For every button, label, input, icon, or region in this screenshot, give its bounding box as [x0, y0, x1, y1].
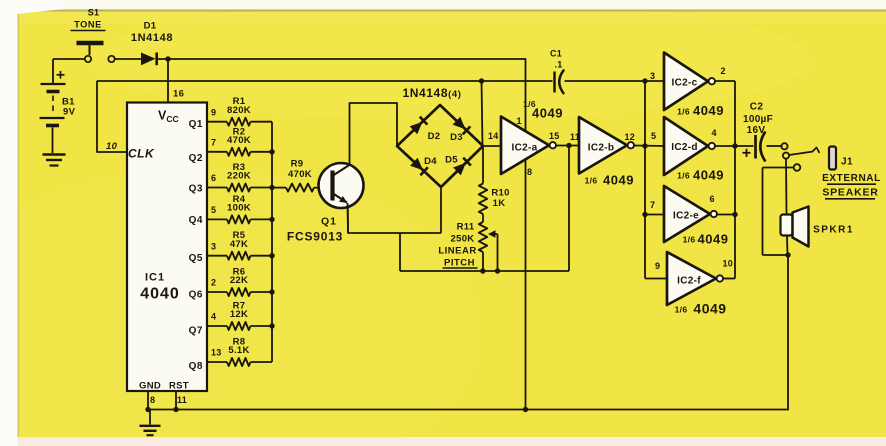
svg-text:Q1: Q1 — [321, 216, 337, 228]
svg-text:IC2-a: IC2-a — [512, 143, 538, 154]
svg-text:Q4: Q4 — [189, 215, 203, 226]
svg-text:10: 10 — [106, 141, 118, 152]
svg-text:4049: 4049 — [603, 173, 634, 188]
svg-text:4: 4 — [211, 312, 216, 322]
svg-text:22K: 22K — [230, 275, 248, 286]
svg-text:1/6: 1/6 — [675, 305, 688, 315]
svg-text:R10: R10 — [491, 188, 509, 199]
svg-text:1: 1 — [517, 116, 522, 126]
svg-text:RST: RST — [169, 381, 189, 392]
svg-text:16: 16 — [173, 89, 184, 100]
svg-text:10: 10 — [723, 259, 734, 269]
svg-text:5: 5 — [651, 131, 656, 141]
svg-text:R11: R11 — [457, 222, 475, 233]
svg-text:1/6: 1/6 — [677, 171, 690, 181]
svg-text:C1: C1 — [550, 49, 562, 59]
svg-text:11: 11 — [177, 395, 187, 405]
svg-text:11: 11 — [570, 132, 580, 142]
svg-text:5.1K: 5.1K — [228, 345, 249, 356]
svg-text:IC2-f: IC2-f — [677, 276, 701, 287]
svg-text:4049: 4049 — [693, 103, 724, 118]
svg-text:R9: R9 — [291, 159, 304, 170]
svg-text:.1: .1 — [554, 60, 562, 70]
svg-text:1K: 1K — [493, 198, 506, 209]
svg-text:5: 5 — [211, 205, 216, 215]
svg-text:Q2: Q2 — [189, 153, 203, 164]
svg-text:4: 4 — [712, 128, 717, 138]
svg-text:LINEAR: LINEAR — [438, 246, 476, 257]
svg-text:7: 7 — [211, 138, 216, 148]
svg-text:9V: 9V — [63, 107, 76, 118]
svg-text:4040: 4040 — [140, 286, 180, 303]
svg-text:C2: C2 — [750, 102, 764, 113]
svg-text:EXTERNAL: EXTERNAL — [822, 173, 881, 184]
svg-text:IC1: IC1 — [145, 272, 165, 284]
svg-text:16V: 16V — [747, 125, 766, 136]
svg-text:Q7: Q7 — [189, 326, 203, 337]
svg-text:1/6: 1/6 — [585, 176, 598, 186]
svg-text:1/6: 1/6 — [677, 107, 690, 117]
svg-text:D4: D4 — [424, 156, 437, 167]
svg-text:3: 3 — [211, 241, 216, 251]
svg-text:470K: 470K — [227, 135, 251, 146]
svg-text:250K: 250K — [451, 234, 475, 245]
svg-text:3: 3 — [650, 71, 655, 81]
svg-text:4049: 4049 — [532, 106, 563, 121]
svg-text:1/6: 1/6 — [683, 235, 696, 245]
svg-text:CLK: CLK — [128, 147, 155, 161]
svg-text:47K: 47K — [230, 239, 248, 250]
svg-text:100µF: 100µF — [743, 114, 773, 125]
svg-text:IC2-c: IC2-c — [672, 78, 698, 89]
svg-text:4049: 4049 — [698, 232, 729, 247]
svg-text:J1: J1 — [841, 157, 853, 168]
svg-text:Q6: Q6 — [189, 290, 203, 301]
svg-text:TONE: TONE — [74, 20, 102, 30]
svg-text:1N4148: 1N4148 — [131, 32, 173, 44]
svg-text:SPEAKER: SPEAKER — [822, 187, 878, 199]
svg-text:D3: D3 — [450, 132, 463, 143]
svg-text:8: 8 — [150, 395, 155, 405]
svg-text:PITCH: PITCH — [444, 258, 475, 269]
svg-text:Q3: Q3 — [189, 184, 203, 195]
svg-text:13: 13 — [211, 348, 222, 358]
svg-text:2: 2 — [721, 66, 726, 76]
svg-text:D2: D2 — [428, 131, 441, 142]
svg-text:Q8: Q8 — [189, 361, 203, 372]
svg-text:FCS9013: FCS9013 — [287, 230, 343, 244]
svg-text:IC2-b: IC2-b — [588, 143, 615, 154]
svg-text:220K: 220K — [227, 171, 251, 182]
svg-text:S1: S1 — [88, 8, 100, 18]
svg-text:IC2-d: IC2-d — [671, 142, 698, 153]
svg-text:8: 8 — [527, 167, 532, 177]
svg-text:Q1: Q1 — [189, 119, 203, 130]
svg-text:D1: D1 — [144, 21, 157, 32]
svg-text:GND: GND — [139, 381, 161, 392]
svg-text:12K: 12K — [230, 309, 248, 320]
svg-text:SPKR1: SPKR1 — [813, 225, 854, 236]
svg-text:7: 7 — [650, 200, 655, 210]
svg-text:6: 6 — [710, 194, 715, 204]
svg-text:470K: 470K — [288, 169, 312, 180]
svg-text:14: 14 — [488, 131, 499, 141]
svg-text:IC2-e: IC2-e — [673, 211, 699, 222]
svg-text:2: 2 — [211, 278, 216, 288]
svg-text:Q5: Q5 — [189, 253, 203, 264]
svg-text:9: 9 — [655, 261, 660, 271]
svg-text:12: 12 — [625, 132, 636, 142]
svg-text:D5: D5 — [445, 155, 458, 166]
svg-text:4049: 4049 — [693, 168, 724, 183]
svg-text:820K: 820K — [227, 105, 251, 116]
svg-text:4049: 4049 — [693, 301, 726, 317]
svg-text:15: 15 — [549, 131, 560, 141]
svg-text:6: 6 — [211, 173, 216, 183]
svg-text:100K: 100K — [227, 203, 251, 214]
svg-text:9: 9 — [211, 107, 216, 117]
svg-text:1N4148(4): 1N4148(4) — [402, 86, 461, 100]
